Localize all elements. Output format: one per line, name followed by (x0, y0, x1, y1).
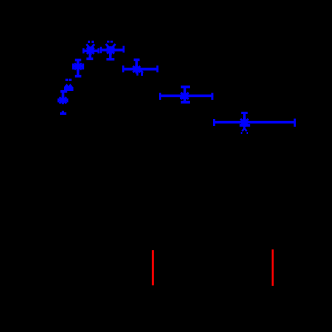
P7 wide lower bar (240, 124, 251, 127)
data point P5 (122, 60, 158, 76)
P6 marker asterisk (180, 95, 190, 98)
P5 lower tail a (136, 69, 138, 75)
P6 y-error top cap (181, 86, 190, 89)
P6 x-error caps (159, 93, 161, 100)
P2 y-error shaft (77, 60, 80, 76)
P6 marker lower arm emphasis (180, 97, 188, 99)
P2 y-error top cap (75, 59, 81, 62)
data point P3 (83, 41, 100, 59)
P2 y-error bottom cap (75, 75, 81, 78)
P5b lower tail b (141, 73, 143, 76)
P7 marker asterisk (239, 121, 250, 124)
red marker line R1 (152, 250, 154, 285)
P2 x-error bar (72, 65, 83, 68)
P1 lower limit stub (62, 111, 64, 114)
P5 y-error top cap (134, 58, 140, 61)
P6 y-error bottom cap (181, 101, 190, 104)
P3 upper limit dots (88, 41, 90, 43)
data point P4 (100, 41, 124, 60)
data point P2 (72, 60, 83, 76)
P5 y-error shaft (135, 60, 138, 69)
P4 marker asterisk (106, 49, 115, 52)
P5 marker asterisk (132, 68, 142, 71)
P3 y-error lower shaft (89, 51, 92, 59)
data point P6 (159, 87, 213, 102)
P7 lower limit chevron (242, 129, 244, 132)
P7 x-error caps (213, 119, 215, 126)
P4 upper limit chevron (106, 44, 111, 49)
L1 dot a (65, 79, 68, 81)
P1 y-error bottom cap (60, 112, 66, 115)
P7 lower limit dots (241, 132, 243, 134)
P3 x-error caps (83, 48, 85, 53)
P1 x-error caps (57, 99, 59, 103)
limit symbol L1 (64, 79, 73, 91)
P3 upper limit chevron (86, 44, 90, 48)
data point P1 (58, 91, 68, 113)
P3 marker asterisk (86, 49, 96, 52)
L1 dot b (69, 79, 72, 81)
P5 x-error caps (122, 66, 124, 73)
P7 y-error top cap (241, 112, 248, 114)
P7 x-error bar (214, 121, 296, 124)
P1 y-error upper shaft (62, 91, 65, 100)
P6 x-error bar (159, 95, 213, 98)
P2 marker asterisk (73, 65, 82, 68)
P4 x-error bar (100, 49, 124, 52)
P4 y-error bottom cap (106, 58, 114, 61)
P2 x-error caps (72, 64, 74, 70)
P4 upper limit dots (107, 41, 109, 43)
P3 y-error bottom cap (86, 57, 93, 60)
P5b diagonal arm (140, 70, 143, 73)
red marker line R2 (272, 249, 274, 286)
P4 x-error caps (100, 47, 102, 53)
P6 y-error shaft (184, 87, 187, 102)
P7 lower shaft (243, 125, 245, 129)
data point P7 (214, 113, 296, 134)
P3 x-error bar (83, 49, 100, 52)
P1 marker asterisk (58, 99, 68, 101)
P7 y-error shaft (243, 113, 246, 122)
P4 y-error lower shaft (109, 50, 112, 59)
P1 y-error top cap (60, 90, 67, 93)
P5 x-error bar (122, 68, 158, 71)
L1 double arrowhead blob (64, 84, 73, 91)
